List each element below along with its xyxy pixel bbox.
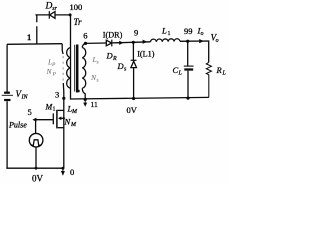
svg-text:s: s xyxy=(97,78,99,84)
svg-text:I(L1): I(L1) xyxy=(137,49,155,58)
svg-text:N: N xyxy=(46,67,53,76)
svg-text:D: D xyxy=(45,2,53,12)
svg-text:5: 5 xyxy=(28,107,32,117)
svg-text:o: o xyxy=(201,31,204,37)
svg-text:9: 9 xyxy=(134,27,138,37)
svg-text:s: s xyxy=(124,67,127,73)
svg-text:11: 11 xyxy=(91,100,98,109)
svg-text:1: 1 xyxy=(27,32,31,42)
svg-text:0: 0 xyxy=(70,167,74,177)
svg-text:I(DR): I(DR) xyxy=(103,30,123,39)
svg-text:3: 3 xyxy=(55,90,59,100)
svg-text:99: 99 xyxy=(184,26,193,36)
svg-text:IN: IN xyxy=(21,95,29,101)
svg-text:6: 6 xyxy=(83,31,87,41)
svg-text:P: P xyxy=(51,62,56,68)
svg-text:R: R xyxy=(112,56,117,62)
svg-text:M: M xyxy=(70,122,77,128)
svg-text:M: M xyxy=(71,109,78,115)
svg-text:R: R xyxy=(216,65,223,75)
svg-text:100: 100 xyxy=(70,2,83,12)
svg-text:s: s xyxy=(97,60,99,66)
svg-text:L: L xyxy=(222,71,227,77)
svg-text:1: 1 xyxy=(53,107,56,113)
svg-text:0V: 0V xyxy=(32,173,44,183)
svg-text:sr: sr xyxy=(52,6,57,12)
svg-text:1: 1 xyxy=(168,31,171,37)
svg-text:0V: 0V xyxy=(127,105,138,115)
svg-text:Tr: Tr xyxy=(74,17,83,27)
svg-text:Pulse: Pulse xyxy=(8,120,27,129)
svg-text:L: L xyxy=(161,26,167,36)
svg-text:L: L xyxy=(178,71,183,77)
svg-text:P: P xyxy=(52,72,57,78)
svg-text:o: o xyxy=(216,38,219,44)
